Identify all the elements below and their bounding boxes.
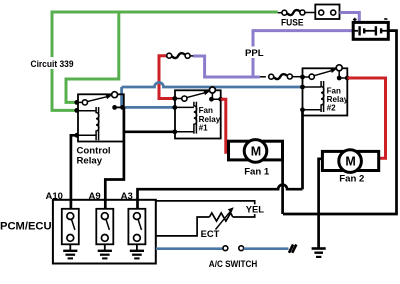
control relay switch pivot bbox=[82, 100, 87, 105]
wire green top rail (Circuit 339) bbox=[52, 11, 278, 14]
svg-text:Fan: Fan bbox=[327, 86, 341, 95]
node dot fan relay 2 pin3 bbox=[300, 107, 305, 112]
node dot fan relay 1 pin3 black bbox=[172, 129, 177, 134]
wire green left drop to control relay pin 1 bbox=[52, 11, 76, 111]
wire blue lower rail to fan relay 1 bbox=[122, 106, 175, 109]
svg-text:PCM/ECU: PCM/ECU bbox=[0, 220, 52, 232]
wire black A3 line with hop over fan1 ground wire bbox=[138, 185, 303, 209]
fan relay 2 contact to output bbox=[338, 71, 347, 78]
node label PPL bbox=[244, 47, 264, 59]
resistor ECT arrow bbox=[216, 211, 231, 229]
node label Circuit 339 bbox=[28, 57, 76, 69]
svg-text:ECT: ECT bbox=[201, 228, 220, 239]
fan 1 motor circle M bbox=[244, 140, 267, 163]
wire black battery minus to ground rail bbox=[283, 31, 397, 214]
fan relay 2 switch pivot bbox=[309, 74, 314, 79]
PCM/ECU box bbox=[53, 200, 156, 264]
node dot fan relay 1 pin1 red bbox=[172, 96, 177, 101]
svg-text:#1: #1 bbox=[199, 123, 209, 132]
node dot fan relay 2 output inner bbox=[337, 76, 342, 81]
svg-text:Circuit 339: Circuit 339 bbox=[31, 59, 74, 70]
wire black relay 1 coil return bbox=[124, 130, 175, 133]
svg-text:YEL: YEL bbox=[246, 204, 265, 215]
svg-text:Fan: Fan bbox=[199, 106, 213, 115]
svg-text:M: M bbox=[345, 155, 355, 169]
svg-text:#2: #2 bbox=[327, 103, 337, 112]
fan 1 motor box bbox=[229, 141, 283, 160]
fan relay 1 switch pivot bbox=[182, 96, 187, 101]
fan relay 1 pivot feed bbox=[175, 98, 182, 100]
node dot fan relay 1 pin2 blue bbox=[172, 105, 177, 110]
svg-text:FUSE: FUSE bbox=[281, 18, 304, 28]
fan relay 2 pivot feed bbox=[303, 76, 309, 78]
fan relay 2 U3 box bbox=[303, 68, 348, 115]
fan relay 1 switch contact circle bbox=[209, 87, 215, 93]
label YEL bbox=[244, 204, 264, 214]
node dot fan relay 2 pin2 blue bbox=[300, 85, 305, 90]
ground symbol pin A10 bbox=[63, 244, 77, 258]
battery B1 bbox=[353, 22, 388, 39]
svg-text:A9: A9 bbox=[89, 191, 101, 202]
fuse holder terminal circles bbox=[319, 10, 324, 15]
fan relay 2 coil bottom lead bbox=[303, 109, 322, 111]
wire purple battery left to PPL drop bbox=[253, 31, 353, 77]
wire red fan relay 2 to fan 2 motor bbox=[347, 78, 385, 158]
node dot control relay pin1 bbox=[74, 100, 79, 105]
fuse holder box bbox=[315, 5, 339, 20]
svg-text:A10: A10 bbox=[46, 191, 63, 202]
node dot fan relay 2 pin1 purple bbox=[300, 75, 305, 80]
node dot fan relay 1 output inner bbox=[209, 97, 214, 102]
svg-text:M: M bbox=[251, 144, 261, 158]
fan 2 motor box bbox=[322, 151, 378, 170]
PCM pin A3 driver box bbox=[128, 209, 145, 245]
wire blue top rail with hop over red bbox=[122, 83, 303, 88]
battery minus label bbox=[384, 18, 387, 20]
break marks on A/C line bbox=[289, 245, 296, 253]
battery plus label bbox=[353, 18, 357, 22]
fan 2 motor circle M bbox=[339, 150, 362, 173]
wire blue A/C switch line left bbox=[156, 247, 223, 250]
node dot fan relay 2 output edge bbox=[345, 76, 350, 81]
switch S2 (circle-squiggle-circle) bbox=[269, 74, 303, 79]
wire green second drop zigzag to control relay pin 2 bbox=[66, 12, 119, 102]
fan relay 1 coil bbox=[194, 102, 197, 134]
control relay coil top lead bbox=[78, 110, 96, 112]
svg-text:A3: A3 bbox=[121, 191, 133, 202]
control relay coil bbox=[96, 107, 99, 140]
wire purple fuse to battery plus bbox=[340, 13, 360, 23]
node dot fan relay 1 output edge bbox=[218, 97, 223, 102]
wire black control relay to PCM pin A10 bbox=[71, 135, 77, 209]
fan relay 1 coil bottom lead bbox=[175, 131, 194, 133]
wire black ECT sensor loop bbox=[156, 201, 255, 236]
control relay U1 box bbox=[78, 94, 124, 141]
ground symbol pin A9 bbox=[98, 244, 112, 258]
svg-text:Fan 1: Fan 1 bbox=[244, 166, 270, 177]
wire purple PPL rail to relay 2 switch bbox=[205, 76, 260, 79]
wire purple from switch S1 down to PPL rail bbox=[193, 56, 205, 79]
fan relay 2 coil bbox=[321, 81, 324, 112]
fan relay 1 contact to output bbox=[212, 93, 221, 99]
PCM pin A9 driver box bbox=[96, 209, 113, 245]
wire black fan 2 to ground bbox=[319, 159, 323, 248]
wire blue drop to lower blue rail bbox=[120, 87, 123, 107]
switch S1 (circle-squiggle-circle) bbox=[167, 53, 194, 58]
connector stub with dots at control relay output bbox=[115, 106, 123, 108]
fan relay 2 switch blade with arrow bbox=[314, 70, 333, 76]
fan relay 2 coil top lead bbox=[303, 86, 322, 88]
fan relay 2 switch contact circle bbox=[336, 65, 342, 71]
fan relay 1 switch blade with arrow bbox=[187, 92, 207, 97]
node dot control relay pin3 bbox=[74, 133, 79, 138]
wire black fan relay 2 coil return down to A3 line bbox=[301, 110, 304, 189]
fuse link F1 (circle-squiggle-circle) bbox=[278, 10, 316, 15]
control relay switch contact circle bbox=[112, 92, 118, 98]
wire black junction column to PCM pin A9 bbox=[105, 107, 124, 208]
control relay pivot feed bbox=[78, 101, 82, 103]
svg-text:PPL: PPL bbox=[245, 48, 264, 59]
svg-text:Fan 2: Fan 2 bbox=[339, 174, 364, 185]
control relay switch blade with arrow bbox=[87, 96, 108, 101]
wire black fan 1 to ground rail bbox=[281, 160, 284, 214]
wire red switch S1 drop to fan relay 1 bbox=[159, 56, 175, 99]
svg-text:A/C SWITCH: A/C SWITCH bbox=[209, 259, 258, 269]
resistor ECT zigzag bbox=[209, 213, 232, 221]
wire red fan relay 1 to fan 1 motor bbox=[221, 99, 226, 154]
fan relay 1 U2 box bbox=[175, 90, 221, 138]
A/C switch terminal circles bbox=[223, 246, 228, 251]
ground symbol main bbox=[312, 249, 326, 257]
node dot control relay pin2 bbox=[74, 108, 79, 113]
svg-text:Relay: Relay bbox=[77, 155, 103, 166]
ground symbol pin A3 bbox=[130, 244, 144, 258]
control relay coil bottom lead bbox=[78, 134, 96, 136]
PCM pin A10 driver box bbox=[62, 209, 79, 245]
wire purple lead into relay 2 switch bbox=[260, 76, 266, 78]
fan relay 1 coil top lead bbox=[175, 106, 194, 108]
wire blue A/C switch line right bbox=[244, 247, 289, 250]
